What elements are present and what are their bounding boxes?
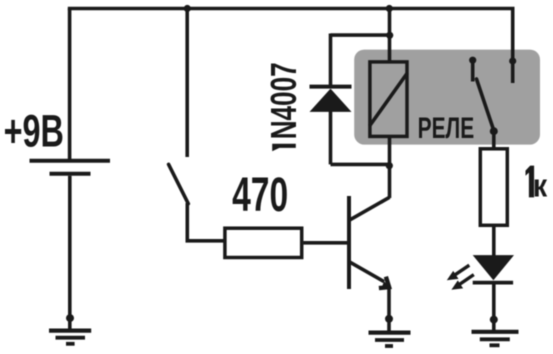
node: battery ground junction dot [66,314,74,322]
LED VD2 [473,255,514,283]
svg-text:РЕЛЕ: РЕЛЕ [418,112,475,144]
wire: resistor R2 to LED [492,225,496,256]
node: diode top tee junction [386,32,393,39]
LED emission arrows [447,265,474,290]
wire: diode bottom connection [331,163,390,167]
battery +9В [30,161,111,174]
transistor Q1 (NPN) [349,196,390,289]
label 470 [232,167,288,221]
switch S1 arm [169,164,189,203]
svg-text:470: 470 [232,167,288,221]
ground (battery) [49,331,91,344]
wire: top rail [68,7,515,11]
wire: emitter down to ground [387,286,391,333]
relay coil K1 [370,62,408,136]
svg-text:N4007: N4007 [264,62,304,139]
resistor R1 470 [225,228,302,257]
label 1к [526,166,548,204]
wire: resistor R1 to transistor base [303,241,349,245]
wire: relay common to resistor R2 [492,131,496,148]
svg-text:к: к [533,168,548,204]
label +9В [4,107,64,156]
relay contact arm [477,79,494,131]
relay body outline (gray box) [354,50,540,145]
node: LED ground junction dot [490,316,498,324]
wire: battery negative to ground [68,176,72,330]
node: relay common terminal dot [490,127,498,135]
wire: diode top connection [331,33,390,37]
wire: LED to ground [492,282,496,331]
wire: relay branch from rail down to coil [388,9,392,61]
ground (emitter) [369,333,411,346]
ground (LED) [472,332,519,346]
node: top rail / relay branch junction [386,5,393,12]
wire: battery positive to top rail [68,9,72,161]
node: emitter ground junction dot [385,315,393,323]
node: coil bottom / diode / collector junction [386,162,393,169]
wire: rail down to NO contact [511,9,515,84]
wire: coil bottom to collector node [388,137,392,167]
relay contact: NO post dot [509,57,516,64]
switch S1 fixed post [185,9,189,158]
resistor R2 1к [480,149,507,226]
label 1N4007 [264,62,304,151]
wire: switch to resistor R1 [187,203,223,241]
node: top rail / switch branch junction [184,5,191,12]
relay contact: NC post with dot [469,57,476,82]
svg-text:+9В: +9В [4,107,64,156]
diode VD1 1N4007 [310,34,352,165]
wire: collector up to node [388,164,392,198]
label РЕЛЕ [418,112,475,144]
